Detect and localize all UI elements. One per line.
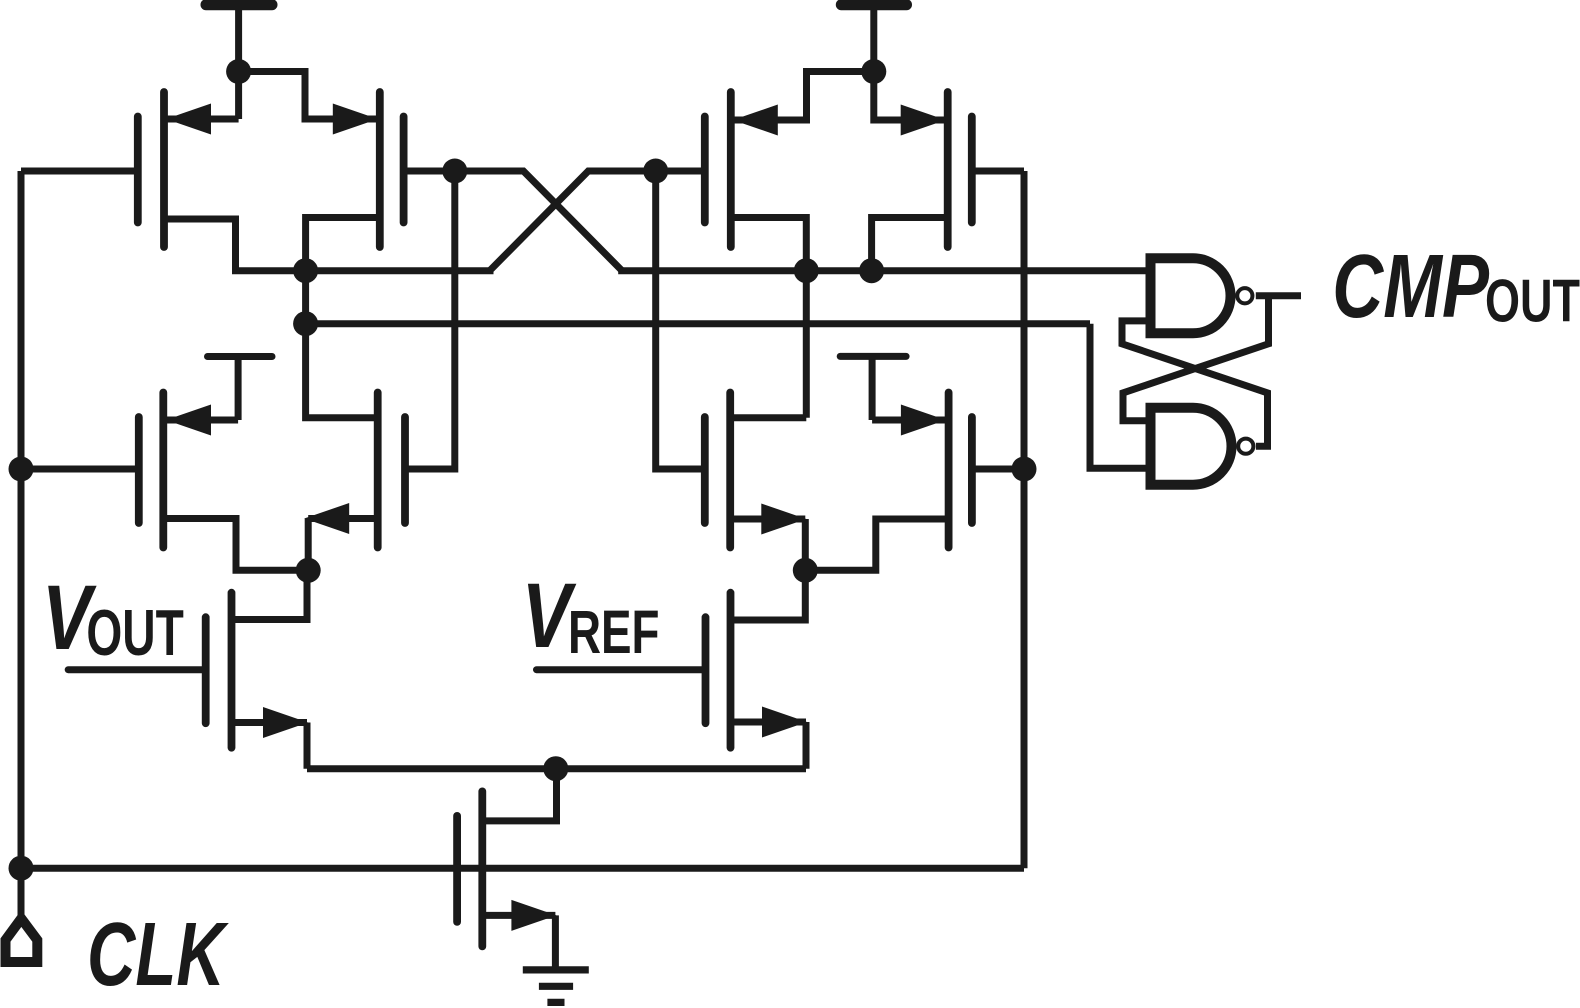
pmos M4 (CLK precharge, right): [948, 92, 972, 247]
wire right inner drain vertical: [803, 271, 810, 418]
wire node OUTL to NAND2 input: [306, 320, 1090, 327]
terminal stub T right: [840, 356, 946, 420]
CLK left gate junction: [9, 457, 34, 482]
terminal stub T left: [166, 357, 272, 421]
node OUTL junction dot 2: [293, 311, 318, 336]
VDD left junction: [226, 59, 251, 84]
common source junction: [543, 756, 568, 781]
tail node right dot: [793, 558, 818, 583]
M10 source wire: [731, 722, 807, 769]
CLK left vertical wire: [18, 171, 25, 868]
CLK right vertical wire: [1021, 171, 1028, 868]
U1 lower input wire from U2 output: [1122, 321, 1268, 446]
node OUTL dot (right X node): [643, 159, 668, 184]
M2 drain wire: [306, 218, 380, 271]
CLK right gate junction: [1012, 457, 1037, 482]
junction dot M4 drain on OUTR: [859, 258, 884, 283]
VREF gate wire: [537, 666, 706, 673]
VOUT gate wire: [68, 666, 206, 673]
M4 drain wire: [872, 218, 948, 271]
svg-text:CLK: CLK: [87, 903, 230, 1004]
nmos M6 (cross-coupled, left): [378, 393, 405, 548]
M10 source arrow: [762, 707, 807, 738]
M1 drain wire: [164, 219, 306, 271]
wire node OUTL horizontal: [306, 267, 494, 274]
M11 source arrow: [511, 900, 556, 931]
svg-text:OUT: OUT: [1485, 268, 1580, 335]
common source wire: [307, 765, 806, 772]
M1 source arrow: [166, 104, 211, 135]
CLK input port: [6, 868, 38, 962]
pmos M2 (cross-coupled, left): [380, 92, 404, 247]
M1 gate wire: [21, 168, 138, 175]
nmos M11 (tail, CLK): [457, 791, 482, 946]
pmos M3 (cross-coupled, right): [705, 92, 731, 247]
U2 lower input wire: [1090, 324, 1146, 469]
M11 source wire: [482, 915, 555, 968]
M11 drain wire: [482, 769, 556, 821]
M9 source arrow: [263, 707, 308, 738]
M8 source wire: [805, 519, 948, 570]
M3 source arrow: [733, 105, 778, 136]
NAND gate U2 (bottom): [1151, 408, 1254, 485]
tail node left dot: [296, 558, 321, 583]
M2 gate wire: [404, 168, 455, 175]
M6 gate wire: [406, 171, 455, 469]
T left arrow: [166, 405, 211, 436]
node OUTL junction dot 1: [293, 258, 318, 283]
M2 source arrow: [333, 104, 378, 135]
M7 gate wire: [656, 171, 705, 469]
cross wire OUTR to right gates: [490, 171, 656, 271]
M6 source arrow: [304, 503, 349, 534]
cross wire OUTL to left gates: [455, 171, 622, 271]
svg-text:REF: REF: [568, 599, 659, 667]
M5 gate wire: [21, 466, 139, 473]
VDD rail right: [841, 5, 906, 72]
M8 gate wire: [972, 466, 1024, 473]
M7 drain wire: [730, 414, 806, 421]
VDD rail left: [206, 5, 272, 72]
M10 drain wire: [731, 570, 806, 620]
M3 source wire: [733, 72, 874, 121]
U2 upper input wire from U1 output: [1123, 296, 1269, 421]
junction dot right drain on OUTR: [794, 258, 819, 283]
M4 gate wire: [972, 168, 1024, 175]
VDD right junction: [861, 59, 886, 84]
nmos M9 (input VOUT): [206, 593, 232, 748]
M5 source wire: [163, 519, 308, 571]
NAND gate U1 (top): [1151, 258, 1253, 333]
M2 source wire: [239, 72, 378, 120]
CLK bottom wire: [21, 865, 1024, 872]
CLK bottom junction: [9, 856, 34, 881]
pmos M1 (CLK precharge, left): [138, 92, 164, 247]
M3 gate wire: [656, 168, 705, 175]
M6 source wire: [308, 519, 378, 571]
M9 source wire: [232, 723, 308, 769]
node OUTR dot (left X node): [442, 159, 467, 184]
M7 source arrow: [761, 504, 806, 535]
ground: [523, 970, 589, 1003]
M3 drain wire: [731, 218, 807, 271]
wire node OUTR horizontal to NAND: [618, 267, 1145, 274]
M6 drain wire: [306, 324, 378, 418]
nmos M7 (cross-coupled, right): [705, 393, 730, 548]
M4 source arrow: [901, 105, 946, 136]
nmos M8 (latch, outer right): [949, 393, 972, 548]
M1 source wire: [166, 72, 239, 120]
M9 drain wire: [232, 570, 308, 619]
M7 source wire: [730, 519, 805, 570]
nmos M10 (input VREF): [706, 593, 731, 748]
nmos M5 (latch, outer left): [139, 393, 164, 548]
T right arrow: [901, 405, 946, 436]
svg-text:CMP: CMP: [1332, 237, 1490, 337]
wire dot1-dot2: [302, 271, 309, 324]
U1 output wire CMPOUT: [1256, 292, 1301, 299]
M4 source wire: [874, 72, 946, 121]
svg-text:OUT: OUT: [86, 596, 183, 669]
